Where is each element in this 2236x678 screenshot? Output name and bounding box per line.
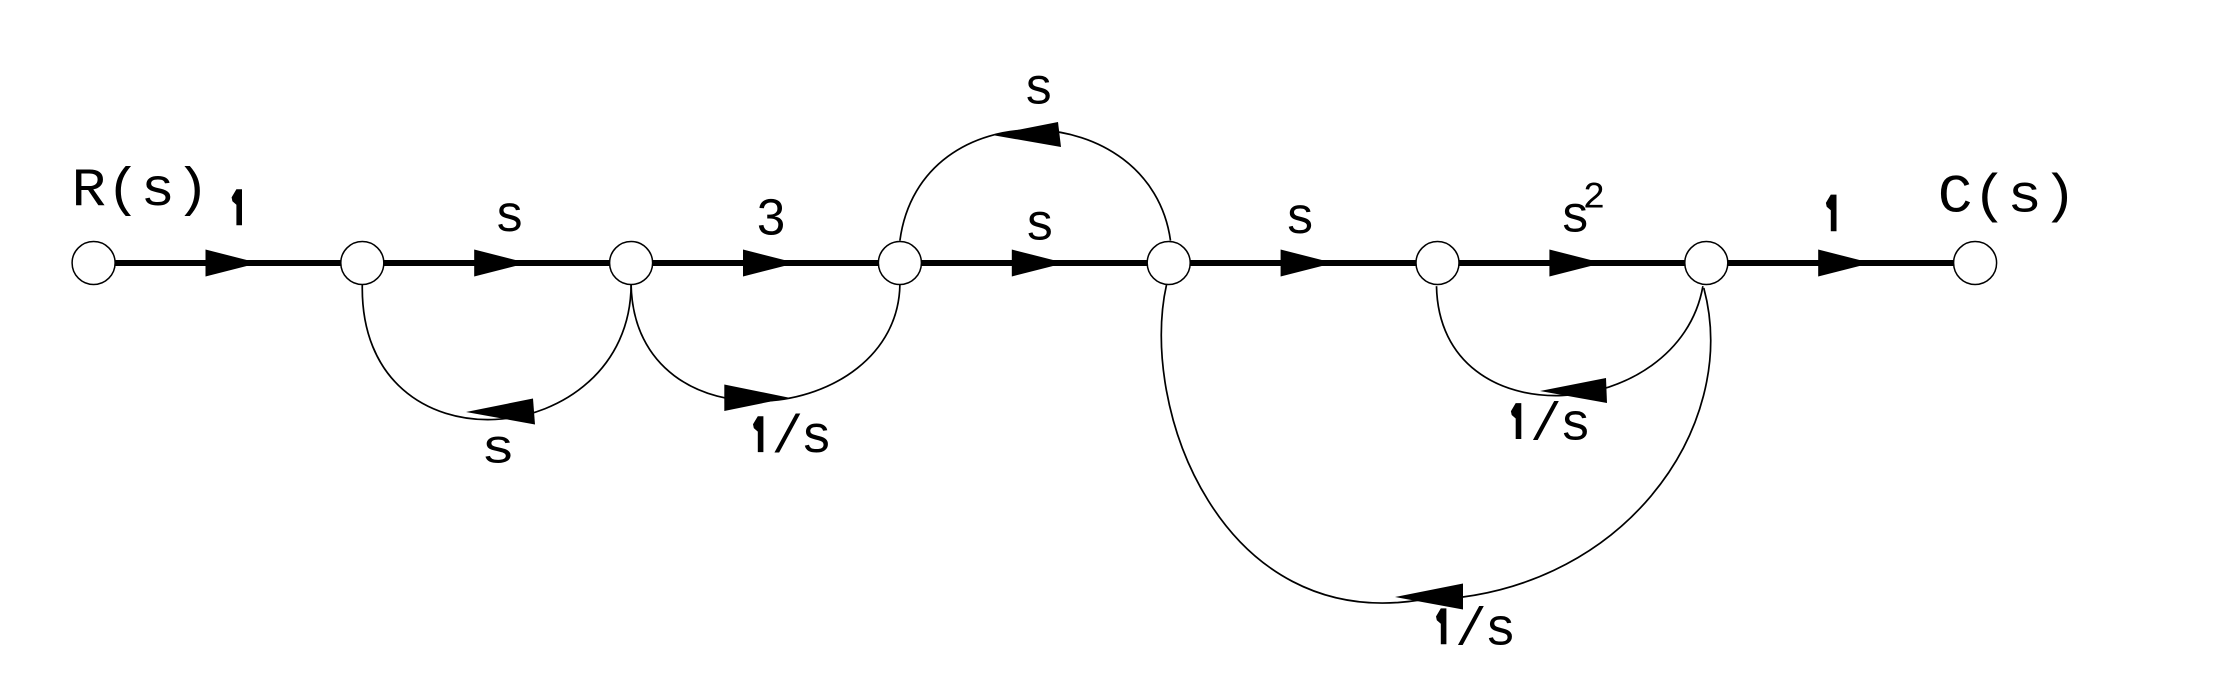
branch arc: feedback s from node N3 to node N2 (lower semicircle): [362, 285, 631, 420]
svg-text:C(s): C(s): [1938, 166, 2077, 228]
svg-text:R(s): R(s): [72, 161, 210, 222]
node N3: [610, 242, 653, 285]
svg-text:/s: /s: [1530, 395, 1591, 455]
gain label 1 on branch N1->N2: [232, 189, 242, 225]
arrowhead on branch N3->N4 (gain 3): [743, 250, 796, 277]
arrowhead on branch N7->N8 (gain 1): [1818, 250, 1871, 277]
arrowhead on branch N5->N6 (gain s): [1281, 250, 1334, 277]
node N6: [1416, 242, 1459, 285]
svg-text:3: 3: [757, 189, 785, 246]
wire: main forward path line from R(s) to C(s): [94, 260, 1976, 266]
svg-text:s: s: [1285, 191, 1316, 249]
svg-text:/s: /s: [772, 408, 833, 468]
node N2: [341, 242, 384, 285]
svg-text:s: s: [1023, 61, 1054, 119]
arrowhead on parallel arc N3->N4 (points right): [724, 385, 789, 412]
node N1: input node R(s): [72, 242, 115, 285]
svg-text:s: s: [481, 423, 516, 477]
svg-text:s: s: [1024, 198, 1055, 256]
node N7: [1685, 242, 1728, 285]
node N5: [1147, 242, 1190, 285]
node N8: output node C(s): [1954, 242, 1997, 285]
arrowhead on feedback arc N7->N6 (points left): [1540, 378, 1607, 403]
arrowhead on feedback arc N3->N2 (points left): [466, 399, 535, 425]
svg-text:/s: /s: [1455, 600, 1516, 660]
arrowhead on big feedback arc N7->N5 (points left): [1395, 584, 1463, 610]
gain label 1 on branch N7->N8: [1826, 195, 1837, 232]
arrowhead on upper feedback arc N5->N4 (points left): [992, 122, 1061, 147]
branch arc: parallel path 1/s from node N3 to node N4 (lower arc): [631, 285, 900, 402]
branch arc: feedback s from node N5 to node N4 (upper arc): [900, 130, 1171, 241]
branch arc: feedback 1/s from node N7 to node N5 (large lower loop): [1161, 285, 1710, 603]
svg-text:2: 2: [1583, 178, 1606, 220]
gain label 1/s on big feedback arc N7->N5: [1436, 608, 1446, 644]
branch arc: feedback 1/s from node N7 to node N6 (lower arc): [1437, 286, 1703, 395]
gain label 1/s on parallel arc N3->N4: [753, 416, 763, 452]
arrowhead on branch N6->N7 (gain s^2): [1549, 250, 1602, 277]
svg-text:s: s: [494, 189, 525, 247]
gain label 1/s on feedback arc N7->N6: [1511, 403, 1521, 439]
arrowhead on branch N2->N3 (gain s): [474, 250, 527, 277]
node N4: [878, 242, 921, 285]
arrowhead on branch N4->N5 (gain s): [1012, 250, 1065, 277]
arrowhead on branch N1->N2 (gain 1): [206, 250, 259, 277]
